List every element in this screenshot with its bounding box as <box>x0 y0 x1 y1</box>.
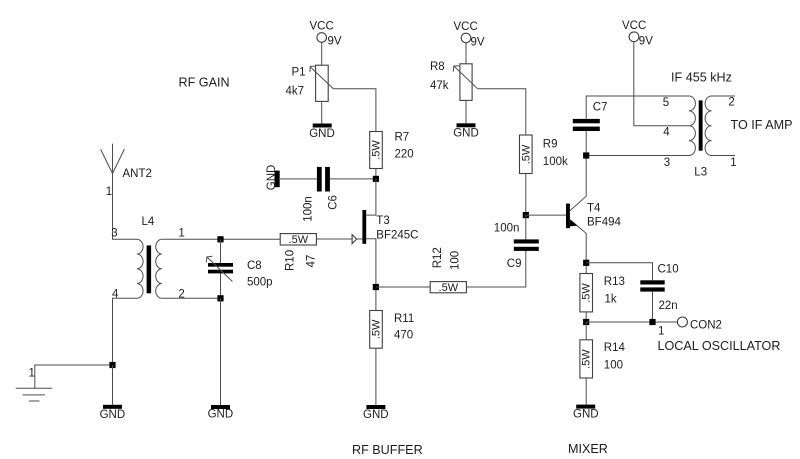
svg-text:.5W: .5W <box>581 349 593 369</box>
transistor T3 <box>352 179 418 287</box>
wire C6 to node <box>330 178 376 180</box>
svg-text:VCC: VCC <box>454 21 478 33</box>
wire antenna to L4 pin3 <box>113 174 138 240</box>
svg-text:RF GAIN: RF GAIN <box>179 76 230 90</box>
resistor R10 <box>280 234 317 271</box>
svg-text:C6: C6 <box>327 195 339 210</box>
resistor R7 <box>370 132 414 169</box>
wire L3 pin2 <box>712 95 736 97</box>
supply VCC (R8) <box>454 21 485 49</box>
svg-text:1: 1 <box>658 325 664 337</box>
svg-text:VCC: VCC <box>310 21 334 33</box>
wire R8 wiper to R9 <box>478 89 526 135</box>
wire C7 bottom to pin3 node <box>585 131 587 156</box>
ground GND (R14) <box>573 405 599 421</box>
node C8 bottom junction <box>217 295 223 301</box>
svg-text:5: 5 <box>663 97 669 109</box>
svg-text:R9: R9 <box>543 139 558 151</box>
svg-text:9V: 9V <box>471 37 485 49</box>
wire R14 to GND <box>585 378 587 405</box>
svg-text:100n: 100n <box>302 196 314 222</box>
svg-text:47k: 47k <box>430 80 449 92</box>
resistor R11 <box>370 311 415 349</box>
svg-text:GND: GND <box>208 409 234 421</box>
svg-text:TO IF AMP: TO IF AMP <box>731 118 793 132</box>
svg-text:9V: 9V <box>639 35 653 47</box>
wire C10 to CON2 line <box>652 292 654 322</box>
svg-text:R13: R13 <box>604 276 625 288</box>
capacitor C10 <box>640 263 678 312</box>
svg-text:C7: C7 <box>593 102 608 114</box>
wire R9 to base node <box>525 174 527 216</box>
svg-text:.5W: .5W <box>581 283 593 303</box>
svg-text:VCC: VCC <box>622 20 646 32</box>
transistor T4 <box>566 156 621 263</box>
node antenna ground junction <box>109 362 115 368</box>
wire VCC to P1 <box>321 42 323 65</box>
svg-text:BF245C: BF245C <box>376 229 418 241</box>
node C8 top junction <box>217 236 223 242</box>
wire R12 to C9 <box>466 251 525 287</box>
ground GND (P1) <box>309 101 335 139</box>
svg-text:.5W: .5W <box>371 319 383 339</box>
svg-text:L4: L4 <box>142 216 155 228</box>
svg-text:C9: C9 <box>507 258 522 270</box>
resistor R14 <box>580 340 626 378</box>
ground GND (C6, rotated) <box>266 165 280 191</box>
svg-text:100k: 100k <box>543 156 568 168</box>
svg-text:.5W: .5W <box>520 144 532 164</box>
node C10 bottom junction <box>649 319 655 325</box>
wire C8 node to GND <box>220 298 222 405</box>
svg-text:R8: R8 <box>430 61 445 73</box>
capacitor C7 <box>573 102 608 132</box>
svg-text:3: 3 <box>664 157 670 169</box>
wire node to C8 <box>220 239 222 263</box>
svg-text:ANT2: ANT2 <box>123 168 152 180</box>
svg-text:R12: R12 <box>432 247 444 268</box>
svg-text:BF494: BF494 <box>587 216 621 228</box>
node R13 bottom junction <box>583 319 589 325</box>
node source junction <box>373 284 379 290</box>
svg-text:GND: GND <box>453 128 479 140</box>
svg-text:1: 1 <box>106 186 112 198</box>
node base junction <box>523 212 529 218</box>
wire GND to C6 <box>279 178 317 180</box>
svg-text:470: 470 <box>394 329 413 341</box>
svg-text:4k7: 4k7 <box>286 86 305 98</box>
svg-text:47: 47 <box>306 255 318 268</box>
wire R11 to GND <box>375 348 377 405</box>
node emitter junction <box>583 260 589 266</box>
resistor R9 <box>520 135 568 174</box>
wire VCC to L3 pin4 <box>634 42 689 126</box>
wire T4 emitter to node3 <box>585 263 587 274</box>
svg-text:220: 220 <box>395 149 414 161</box>
wire L4 pin2 <box>162 297 221 299</box>
node drain junction <box>373 176 379 182</box>
transformer L4 <box>111 216 185 300</box>
wire base node to C9 <box>525 215 527 239</box>
svg-text:1: 1 <box>29 368 35 380</box>
ground GND (R11) <box>363 405 389 421</box>
wire node4 to CON2 <box>586 321 677 323</box>
wire base node to T4 <box>526 214 566 216</box>
svg-text:C8: C8 <box>247 260 262 272</box>
svg-text:R10: R10 <box>285 250 297 271</box>
svg-text:2: 2 <box>728 97 734 109</box>
wire P1 wiper to R7 <box>333 89 376 132</box>
supply VCC (P1) <box>310 21 342 48</box>
wire L4 pin4 to ground node <box>113 298 138 365</box>
wire T3 source to node2 <box>375 287 377 311</box>
svg-text:R14: R14 <box>604 342 626 354</box>
svg-text:GND: GND <box>309 128 335 140</box>
wire R10 to T3 gate <box>316 238 352 240</box>
capacitor C8 (variable) <box>206 256 272 288</box>
svg-text:T4: T4 <box>587 202 601 214</box>
resistor R13 <box>580 274 625 312</box>
svg-text:L3: L3 <box>694 167 707 179</box>
svg-text:.5W: .5W <box>289 234 309 246</box>
svg-text:3: 3 <box>111 227 117 239</box>
svg-text:.5W: .5W <box>371 140 383 160</box>
svg-text:C10: C10 <box>658 263 679 275</box>
ground GND (C8) <box>208 405 234 421</box>
svg-text:100: 100 <box>604 359 623 371</box>
wire pin3 node to L3 <box>586 155 689 157</box>
wire L4 pin1 to R10 <box>162 238 280 240</box>
wire R13 to node4 <box>585 312 587 322</box>
svg-text:P1: P1 <box>292 67 306 79</box>
svg-text:GND: GND <box>363 409 389 421</box>
transformer L3 <box>663 96 737 179</box>
svg-text:100: 100 <box>450 251 462 270</box>
wire node to GND <box>112 365 114 405</box>
svg-text:1: 1 <box>730 157 736 169</box>
svg-text:.5W: .5W <box>439 282 459 294</box>
connector CON2 <box>658 317 722 337</box>
svg-text:500p: 500p <box>247 277 273 289</box>
wire L3 pin1 <box>712 155 736 157</box>
wire VCC to R8 <box>465 43 467 64</box>
potentiometer R8 <box>430 61 478 101</box>
svg-text:1: 1 <box>178 228 184 240</box>
ground GND (antenna) <box>100 405 126 421</box>
potentiometer P1 <box>286 65 334 101</box>
svg-text:IF 455 kHz: IF 455 kHz <box>671 71 732 85</box>
svg-text:100n: 100n <box>494 222 520 234</box>
svg-text:T3: T3 <box>376 215 389 227</box>
capacitor C6 <box>302 167 339 222</box>
antenna ANT2 <box>101 144 152 198</box>
svg-text:CON2: CON2 <box>690 319 722 331</box>
svg-text:9V: 9V <box>328 36 342 48</box>
svg-text:1k: 1k <box>605 294 617 306</box>
wire R7 to node <box>375 169 377 179</box>
wire node2 to R12 <box>376 286 430 288</box>
wire C8 to pin2 node <box>220 273 222 298</box>
wire C7 top to L3 pin5 <box>586 96 689 119</box>
capacitor C9 <box>494 222 539 270</box>
svg-text:4: 4 <box>663 126 670 138</box>
supply VCC (L3) <box>622 20 653 48</box>
svg-text:GND: GND <box>100 409 126 421</box>
wire emitter node to C10 <box>586 263 652 281</box>
wire node to earth <box>35 365 113 388</box>
svg-text:MIXER: MIXER <box>568 442 608 456</box>
svg-text:R7: R7 <box>395 132 410 144</box>
svg-text:LOCAL OSCILLATOR: LOCAL OSCILLATOR <box>658 339 781 353</box>
earth ground symbol <box>16 368 52 402</box>
svg-text:22n: 22n <box>659 300 678 312</box>
svg-text:RF BUFFER: RF BUFFER <box>352 443 423 457</box>
resistor R12 <box>430 247 466 294</box>
wire node4 to R14 <box>585 322 587 340</box>
ground GND (R8) <box>453 100 479 139</box>
node collector junction <box>583 152 589 158</box>
svg-text:GND: GND <box>573 409 599 421</box>
svg-text:GND: GND <box>266 165 278 191</box>
svg-text:R11: R11 <box>394 313 414 325</box>
